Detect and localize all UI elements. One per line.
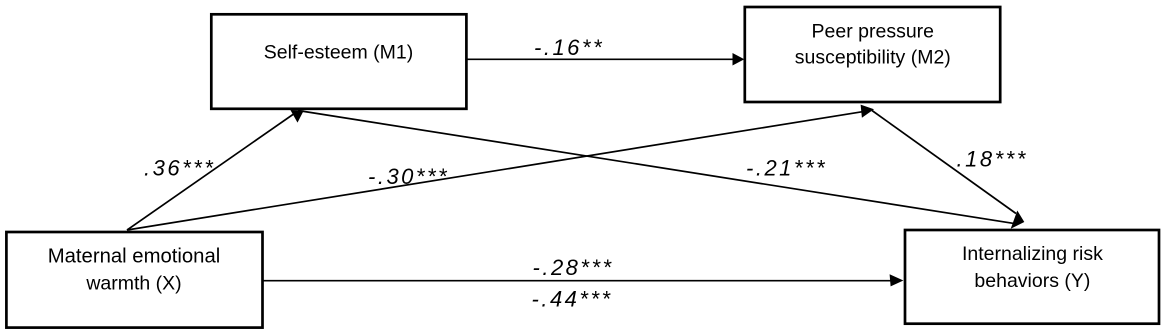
arrowhead d+e (at Y top) bbox=[1011, 211, 1025, 229]
wire f: X to Y bbox=[263, 280, 891, 282]
svg-text:susceptibility (M2): susceptibility (M2) bbox=[795, 47, 951, 69]
svg-text:behaviors (Y): behaviors (Y) bbox=[974, 270, 1090, 292]
arrowhead f (at Y left) bbox=[890, 274, 904, 286]
box M2 (Peer pressure susceptibility) bbox=[745, 7, 1000, 102]
svg-text:.18***: .18*** bbox=[957, 147, 1028, 172]
svg-text:-.30***: -.30*** bbox=[368, 164, 449, 189]
box X (Maternal emotional warmth) bbox=[6, 232, 262, 328]
svg-text:Internalizing risk: Internalizing risk bbox=[962, 243, 1103, 265]
arrowhead a (at M1 bottom) bbox=[290, 110, 303, 123]
wire d: M1 to Y bbox=[298, 111, 1013, 224]
svg-text:-.44***: -.44*** bbox=[532, 286, 613, 311]
svg-text:Self-esteem (M1): Self-esteem (M1) bbox=[264, 42, 414, 64]
wire a: X to M1 bbox=[127, 112, 297, 230]
svg-text:warmth (X): warmth (X) bbox=[85, 273, 181, 295]
arrowhead b (at M2 bottom) bbox=[861, 105, 874, 118]
svg-text:-.21***: -.21*** bbox=[746, 156, 827, 181]
box Y (Internalizing risk behaviors) bbox=[905, 230, 1159, 324]
svg-text:-.28***: -.28*** bbox=[533, 255, 614, 280]
svg-text:Peer pressure: Peer pressure bbox=[812, 21, 934, 43]
wire c: M1 to M2 bbox=[468, 58, 735, 60]
arrowhead c (at M2 left) bbox=[733, 53, 745, 66]
box M1 (Self-esteem) bbox=[211, 14, 466, 109]
wire e: M2 to Y bbox=[872, 111, 1016, 214]
svg-text:Maternal emotional: Maternal emotional bbox=[48, 245, 220, 267]
wire b: X to M2 bbox=[127, 111, 868, 230]
svg-text:-.16**: -.16** bbox=[534, 35, 604, 60]
svg-text:.36***: .36*** bbox=[144, 156, 215, 181]
